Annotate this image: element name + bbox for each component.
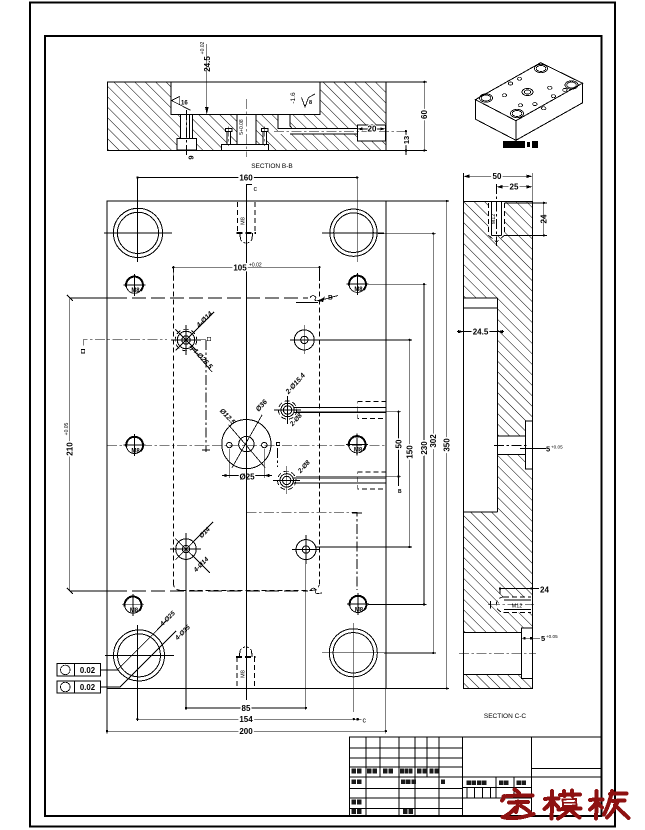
svg-text:M8: M8	[241, 217, 247, 225]
svg-text:8: 8	[309, 100, 312, 106]
svg-text:B: B	[398, 489, 402, 495]
label bili	[517, 780, 521, 785]
right column centerline bottom	[353, 623, 355, 712]
M8 screw hole top-left	[124, 274, 146, 296]
dim 150 right	[409, 340, 411, 547]
C-C hatched middle block	[464, 512, 533, 633]
left grid horizontals	[350, 748, 602, 808]
char mo	[550, 791, 555, 819]
base pedestal center	[222, 145, 269, 151]
iso caption blob	[503, 141, 538, 148]
M12 top hole white	[489, 202, 505, 236]
plate outline plan	[107, 201, 386, 689]
bushing top-left vertical centerline	[136, 178, 138, 263]
svg-text:302: 302	[429, 434, 438, 448]
dim 210 left	[69, 298, 71, 591]
dim 20	[360, 128, 384, 130]
C-C hatched bottom band	[464, 675, 533, 689]
tolerance frame 2	[57, 681, 100, 693]
center inner hole	[239, 436, 254, 451]
svg-text:5+0.08: 5+0.08	[239, 119, 245, 135]
label biaoji	[352, 769, 357, 774]
label nianyueri	[430, 769, 434, 774]
side channel white	[497, 436, 525, 455]
pocket floor line C-C	[464, 511, 498, 513]
dim 85	[186, 707, 306, 709]
dim 24.5	[457, 331, 504, 333]
bushing top-left	[113, 208, 162, 257]
label zhongliang	[499, 780, 503, 785]
svg-text:24.5: 24.5	[473, 327, 489, 336]
cooling channel white vertical	[278, 115, 290, 135]
M12 top hole	[489, 184, 505, 246]
B marker left	[83, 340, 167, 346]
svg-text:+0.05: +0.05	[64, 422, 70, 435]
M8 screw hole bottom-right	[347, 593, 369, 615]
center line B-B	[245, 99, 247, 157]
right area verticals	[496, 737, 531, 816]
dim 154	[137, 718, 353, 720]
label chushu	[367, 769, 372, 774]
svg-text:c: c	[254, 186, 258, 193]
right area horizontals	[462, 768, 601, 798]
M8 screw hole mid-left	[124, 434, 146, 456]
title block outline	[350, 737, 602, 816]
main vertical centerline	[245, 190, 247, 700]
B section stepped line	[199, 339, 206, 341]
svg-text:24.5: 24.5	[203, 56, 212, 72]
pocket hidden outline left	[172, 267, 174, 582]
M8 screw hole top-right	[347, 273, 369, 295]
bore band lines	[464, 632, 522, 634]
top edge dim extension to 350	[386, 200, 449, 202]
C-C outline	[464, 202, 533, 689]
svg-text:50: 50	[493, 172, 502, 181]
sprue channel white	[237, 115, 256, 145]
bore notch white	[522, 628, 533, 678]
body outline B-B	[107, 82, 386, 150]
iso center hole	[522, 88, 533, 95]
right column centerline top	[356, 178, 358, 263]
iso plate right face	[516, 83, 583, 140]
center diagonals	[229, 425, 266, 468]
svg-text:210: 210	[66, 442, 75, 456]
svg-text:SECTION C-C: SECTION C-C	[484, 713, 527, 720]
label sheji	[352, 779, 357, 784]
bore notch outline	[522, 628, 533, 678]
pocket cavity white	[171, 81, 320, 114]
svg-text:M8: M8	[241, 670, 247, 678]
guide pin top-left with spokes	[177, 331, 194, 348]
svg-text:85: 85	[242, 704, 251, 713]
leader 4-d14	[192, 312, 214, 334]
svg-text:5: 5	[546, 445, 550, 454]
bore centerline	[459, 652, 536, 654]
M12 side hole white	[499, 597, 532, 613]
label pizhun	[403, 809, 408, 814]
dim 350 right	[446, 201, 448, 689]
leader 1 to bushing	[101, 621, 167, 670]
dim 24 bottom	[500, 589, 532, 594]
svg-text:200: 200	[239, 727, 253, 736]
svg-text:350: 350	[443, 438, 452, 452]
dim 200	[107, 730, 386, 732]
guide pin bottom-right	[296, 540, 316, 560]
dim 50 right	[398, 412, 400, 477]
svg-text:25: 25	[510, 183, 519, 192]
label qianming	[417, 769, 422, 774]
inner wall line	[496, 298, 498, 512]
svg-text:M12: M12	[512, 604, 523, 610]
step slot lines	[464, 297, 498, 299]
dim 60 right	[386, 81, 427, 83]
cooling channel centerline	[274, 130, 406, 132]
svg-text:9: 9	[187, 155, 196, 159]
C-C hatched right column	[497, 298, 532, 512]
svg-text:5: 5	[541, 634, 545, 643]
dim 302 right	[432, 234, 434, 653]
label shenhe	[352, 800, 357, 805]
dim d25 under center	[228, 449, 230, 478]
hatched plate body B-B	[107, 82, 386, 150]
guide pin top-right	[294, 330, 314, 350]
svg-text:20: 20	[368, 125, 377, 134]
svg-text:SECTION B-B: SECTION B-B	[251, 163, 293, 170]
bushing bottom-left	[114, 630, 165, 681]
leader 4-d26.5	[190, 346, 212, 372]
svg-text:+0.05: +0.05	[551, 445, 563, 450]
svg-text:+0.05: +0.05	[546, 634, 558, 639]
svg-text:0.02: 0.02	[80, 666, 96, 675]
bushing top-right	[330, 209, 377, 256]
svg-text:-1.6: -1.6	[290, 92, 297, 104]
svg-text:105: 105	[233, 263, 247, 272]
cooling hole upper	[278, 401, 296, 419]
label fenqu	[383, 769, 388, 774]
B corner square	[207, 337, 210, 340]
right side extension lines	[378, 233, 436, 235]
iso small holes	[502, 77, 567, 110]
svg-text:0.02: 0.02	[80, 683, 96, 692]
label biaozhunhua	[401, 779, 405, 784]
dim 5+0.05 leader top	[520, 447, 546, 449]
bottom dim extensions	[185, 560, 187, 710]
horizontal centerline lower dashed	[70, 590, 113, 592]
M8 screw hole bottom-left	[122, 594, 144, 616]
finish mark left	[171, 96, 190, 110]
bushing bottom-right	[329, 629, 377, 677]
label gongyi	[352, 809, 357, 814]
cooling channel upper to edge	[294, 407, 386, 409]
iso plate left face	[475, 100, 516, 141]
bolt left	[225, 129, 231, 132]
dim 230 right	[423, 284, 425, 604]
side channel outline	[497, 435, 525, 437]
pocket hidden outline bottom	[181, 589, 311, 591]
pin centerline	[185, 110, 187, 156]
label jieduan biaoji	[467, 780, 471, 785]
left column centerline bottom	[136, 625, 138, 719]
svg-text:60: 60	[420, 110, 429, 119]
svg-text:c: c	[363, 717, 367, 724]
cooling hole lower	[278, 471, 296, 489]
label ri	[441, 779, 445, 784]
sprue channel walls	[236, 115, 238, 145]
M12 side hole	[488, 597, 534, 613]
guide pin left base	[177, 138, 197, 150]
pocket hidden outline right	[319, 267, 321, 582]
section C marker top	[246, 185, 252, 197]
C-C hatched top block	[464, 202, 533, 299]
guide pin bottom-left with spokes	[176, 539, 197, 560]
dim 24.5+0.02 top	[206, 44, 208, 115]
dim 50 top C-C	[463, 173, 465, 202]
svg-text:16: 16	[181, 101, 188, 107]
svg-text:24: 24	[540, 214, 549, 223]
dim 25 top C-C	[497, 186, 533, 188]
sprue slot bottom	[236, 647, 255, 688]
svg-text:230: 230	[420, 441, 429, 455]
svg-text:Ø25: Ø25	[239, 472, 255, 481]
M8 screw holes (6)	[122, 273, 369, 616]
svg-text:13: 13	[402, 136, 411, 144]
svg-text:24: 24	[540, 585, 549, 594]
bolt right	[261, 129, 267, 132]
char ding	[515, 790, 520, 794]
svg-text:+0.02: +0.02	[249, 263, 262, 269]
cooling channel white horizontal	[281, 128, 385, 134]
sprue slot top	[237, 202, 256, 243]
tolerance frame 1	[57, 664, 100, 676]
dim 13	[405, 131, 407, 155]
center side holes	[227, 442, 232, 447]
cooling channel outline	[278, 115, 281, 129]
svg-text:154: 154	[239, 715, 253, 724]
char ban	[594, 791, 599, 819]
iso plate top face	[475, 63, 582, 121]
B marker right	[318, 296, 338, 302]
pocket outline	[171, 82, 320, 115]
left grid verticals	[366, 737, 462, 816]
horizontal centerline upper dashed	[70, 297, 113, 299]
svg-text:150: 150	[406, 445, 415, 459]
B marker bottom right	[398, 477, 400, 486]
C section stepped line	[246, 512, 357, 590]
center sprue boss circle	[222, 420, 271, 469]
svg-text:+0.02: +0.02	[200, 41, 206, 54]
M8 screw hole mid-right	[346, 434, 368, 456]
dim 105	[173, 267, 319, 281]
cooling channel lower to edge	[293, 477, 386, 479]
iso corner counterbores	[480, 64, 579, 117]
cooling channel end plug white	[358, 125, 386, 141]
small boxes row	[467, 787, 491, 798]
svg-text:50: 50	[394, 439, 403, 448]
dim 24 top right	[504, 202, 547, 204]
main horizontal centerline mid	[107, 444, 386, 446]
side plug white	[526, 421, 533, 469]
dim 5+0.05 bottom	[522, 637, 540, 639]
svg-text:160: 160	[239, 174, 253, 183]
side channel centerline	[494, 445, 528, 447]
label genggai wenjianhao	[400, 769, 404, 774]
dim 160 top	[137, 178, 357, 184]
svg-text:M12: M12	[491, 214, 497, 225]
guide pin left shaft	[180, 115, 192, 139]
section C marker bottom	[354, 718, 362, 720]
side plug outline	[526, 421, 533, 469]
svg-text:B: B	[328, 295, 333, 302]
leader 2 to bushing	[101, 631, 177, 687]
